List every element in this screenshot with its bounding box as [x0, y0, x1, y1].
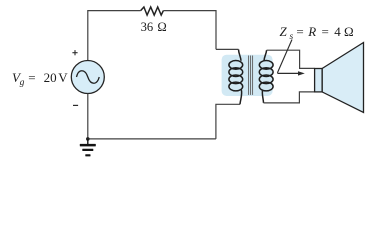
- wire secondary top to speaker: [267, 50, 315, 68]
- transformer blue panel: [222, 55, 273, 96]
- ground: [80, 139, 96, 157]
- transformer secondary coil: [259, 50, 273, 103]
- wire primary bottom lead: [216, 104, 240, 139]
- arrow Zs pointing into speaker: [277, 71, 304, 75]
- transformer primary coil: [229, 49, 243, 104]
- wire secondary bottom to speaker: [264, 92, 315, 103]
- transformer core: [249, 56, 253, 95]
- minus sign: [73, 104, 78, 106]
- wire top (source to resistor): [88, 10, 141, 12]
- wire left (top wire down to source): [87, 10, 89, 60]
- wire source bottom to ground corner: [87, 94, 89, 139]
- speaker driver: [315, 69, 323, 92]
- junction dot at ground node: [86, 137, 90, 141]
- wire bottom: [88, 138, 216, 140]
- wire primary top lead: [216, 48, 239, 50]
- resistor 36Ω: [141, 7, 164, 15]
- leader line from Zs label: [277, 40, 292, 73]
- plus sign: [72, 50, 77, 55]
- svg-text:36 Ω: 36 Ω: [141, 20, 167, 34]
- voltage source Vg (AC): [71, 61, 104, 94]
- speaker cone: [322, 43, 363, 113]
- wire resistor to top-right corner, down to transformer: [163, 11, 216, 50]
